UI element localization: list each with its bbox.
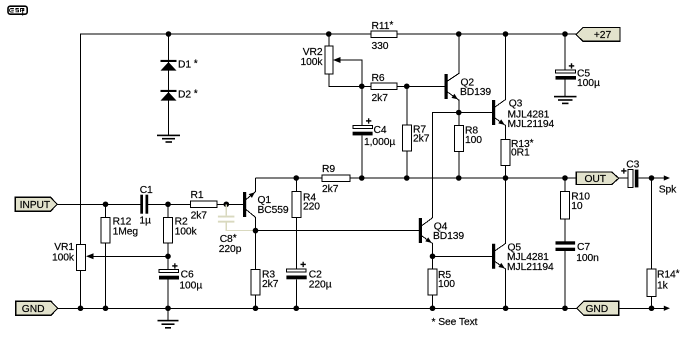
node R4 top bbox=[293, 175, 299, 181]
svg-text:BD139: BD139 bbox=[460, 87, 491, 98]
transistor Q4 bbox=[419, 218, 465, 256]
capacitor C2 bbox=[286, 260, 331, 308]
svg-text:2k7: 2k7 bbox=[413, 134, 430, 145]
svg-text:OUT: OUT bbox=[585, 174, 607, 185]
svg-text:R9: R9 bbox=[322, 164, 335, 175]
node R3 bottom bbox=[253, 305, 259, 311]
capacitor C5 bbox=[556, 34, 600, 97]
svg-text:220µ: 220µ bbox=[309, 280, 332, 291]
svg-text:1µ: 1µ bbox=[139, 215, 151, 226]
node Q2 emitter bbox=[456, 110, 462, 116]
svg-text:R6: R6 bbox=[372, 73, 385, 84]
esp logo bbox=[8, 6, 27, 15]
tag GND right bbox=[577, 301, 619, 315]
tag +27 bbox=[576, 28, 620, 42]
node Q3 collector rail bbox=[503, 31, 509, 37]
svg-text:C7: C7 bbox=[577, 242, 590, 253]
svg-text:1,000µ: 1,000µ bbox=[364, 137, 395, 148]
svg-text:BC559: BC559 bbox=[258, 205, 289, 216]
node C7 bottom bbox=[562, 305, 568, 311]
svg-text:100n: 100n bbox=[576, 253, 599, 264]
node Q2 collector rail bbox=[456, 31, 462, 37]
svg-text:Spk: Spk bbox=[659, 185, 677, 196]
node C2 bottom bbox=[293, 305, 299, 311]
trimpot VR1 bbox=[52, 242, 168, 308]
svg-text:100: 100 bbox=[438, 279, 455, 290]
svg-text:BD139: BD139 bbox=[433, 231, 464, 242]
diode D1 bbox=[161, 59, 198, 71]
svg-text:C1: C1 bbox=[140, 185, 153, 196]
wire Q1 collector to Q4 base bbox=[256, 230, 419, 232]
svg-text:+27: +27 bbox=[594, 30, 612, 41]
transistor Q3 bbox=[492, 34, 555, 139]
node R14 bottom bbox=[649, 305, 655, 311]
svg-text:2k7: 2k7 bbox=[262, 279, 279, 290]
capacitor C1 bbox=[139, 185, 153, 227]
node R12 top bbox=[103, 201, 109, 207]
node C5 rail bbox=[562, 31, 568, 37]
svg-text:MJL21194: MJL21194 bbox=[508, 119, 555, 130]
node VR2/R6/C4 bbox=[359, 83, 365, 89]
svg-text:C4: C4 bbox=[374, 125, 387, 136]
capacitor C8 (greyed) bbox=[218, 204, 253, 255]
resistor R11 bbox=[371, 20, 397, 52]
svg-text:100k: 100k bbox=[175, 227, 198, 238]
ground under D2 bbox=[157, 135, 180, 143]
svg-text:220p: 220p bbox=[219, 244, 242, 255]
node C6 bottom / ground bbox=[165, 305, 171, 311]
wire C1 to R1 bbox=[148, 203, 190, 205]
svg-text:100µ: 100µ bbox=[179, 281, 202, 292]
node junction VR2 top bbox=[326, 31, 332, 37]
svg-text:330: 330 bbox=[372, 41, 389, 52]
svg-text:Q3: Q3 bbox=[509, 99, 523, 110]
resistor R9 bbox=[322, 164, 350, 195]
svg-text:* See Text: * See Text bbox=[432, 317, 478, 328]
resistor R8 bbox=[454, 113, 482, 179]
node Spk / R14 bbox=[649, 175, 655, 181]
svg-text:10: 10 bbox=[571, 201, 583, 212]
wire R14 from Spk node bbox=[651, 178, 653, 269]
resistor R2 bbox=[164, 204, 198, 269]
node Q1 collector / R3 bbox=[253, 228, 259, 234]
resistor R1 bbox=[191, 190, 244, 222]
resistor R4 bbox=[292, 178, 321, 269]
capacitor C4 bbox=[353, 86, 396, 178]
wire R9 to OUT node bbox=[350, 177, 576, 179]
svg-text:100: 100 bbox=[465, 135, 482, 146]
resistor R7 bbox=[402, 86, 429, 178]
node R8 bottom bbox=[456, 175, 462, 181]
node Q4 emitter / R5 / Q5 base bbox=[430, 253, 436, 259]
transistor Q1 bbox=[243, 178, 289, 231]
capacitor C7 bbox=[556, 241, 600, 308]
svg-text:2k7: 2k7 bbox=[372, 93, 389, 104]
svg-text:1k: 1k bbox=[657, 281, 669, 292]
wire +27 rail left (feed down to VR1) bbox=[81, 34, 372, 245]
svg-text:220: 220 bbox=[303, 201, 320, 212]
node R10 top bbox=[562, 175, 568, 181]
node Q1 base / C8 bbox=[224, 201, 230, 207]
resistor R10 bbox=[561, 178, 591, 241]
svg-text:C3: C3 bbox=[626, 159, 639, 170]
svg-text:R11*: R11* bbox=[372, 20, 394, 32]
node Q5 emitter bottom bbox=[503, 305, 509, 311]
ground symbol below rail bbox=[158, 308, 179, 328]
svg-text:D1 *: D1 * bbox=[178, 59, 198, 71]
arrow Spk out bbox=[664, 175, 670, 180]
resistor R14 bbox=[647, 269, 680, 309]
tag GND left bbox=[16, 301, 58, 315]
node R13 bottom / Q5 collector bbox=[503, 175, 509, 181]
tag OUT bbox=[576, 172, 619, 185]
svg-text:R1: R1 bbox=[191, 190, 204, 201]
wire ground rail bbox=[58, 307, 577, 309]
svg-text:2k7: 2k7 bbox=[191, 211, 208, 222]
node C4 bottom bbox=[359, 175, 365, 181]
capacitor C3 bbox=[621, 159, 640, 187]
node VR1 bottom bbox=[78, 305, 84, 311]
trimpot VR2 bbox=[300, 34, 361, 86]
node R2 top bbox=[165, 201, 171, 207]
svg-text:VR1: VR1 bbox=[54, 242, 74, 253]
svg-text:100k: 100k bbox=[52, 253, 75, 264]
wire input line bbox=[57, 203, 140, 205]
capacitor C6 bbox=[159, 261, 202, 308]
resistor R6 bbox=[362, 73, 445, 104]
diode D2 bbox=[161, 89, 198, 101]
transistor Q5 bbox=[492, 178, 554, 308]
svg-text:MJL21194: MJL21194 bbox=[507, 262, 554, 273]
resistor R13 bbox=[501, 138, 534, 178]
wire Q2 emitter node to Q4 collector bbox=[433, 113, 459, 218]
wire Q1 top to R9 bbox=[255, 177, 322, 179]
node junction D1 top rail bbox=[166, 31, 172, 37]
resistor R12 bbox=[101, 204, 138, 308]
resistor R5 bbox=[428, 256, 455, 308]
svg-text:100µ: 100µ bbox=[577, 78, 600, 89]
wire D1/D2 chain bbox=[168, 34, 170, 135]
resistor R3 bbox=[251, 231, 279, 309]
svg-text:D2 *: D2 * bbox=[178, 89, 198, 101]
node VR1 wiper / R2 / C6 bbox=[165, 253, 171, 259]
svg-text:GND: GND bbox=[22, 304, 45, 315]
svg-text:GND: GND bbox=[586, 304, 609, 315]
svg-text:100k: 100k bbox=[300, 57, 323, 68]
wire Q2 emitter to Q3 base bbox=[459, 112, 492, 114]
node R7 bottom bbox=[404, 175, 410, 181]
wire OUT tag to C3 bbox=[619, 177, 628, 179]
svg-text:C6: C6 bbox=[181, 270, 194, 281]
transistor Q2 bbox=[445, 34, 492, 113]
svg-text:1Meg: 1Meg bbox=[113, 227, 139, 238]
ground under C5 bbox=[554, 96, 577, 104]
svg-text:R14*: R14* bbox=[657, 269, 680, 281]
node R7 top bbox=[404, 83, 410, 89]
svg-text:INPUT: INPUT bbox=[20, 200, 51, 211]
svg-text:0R1: 0R1 bbox=[511, 148, 530, 159]
svg-text:2k7: 2k7 bbox=[322, 184, 339, 195]
node R12 bottom bbox=[103, 305, 109, 311]
wire Q4 emitter to Q5 base bbox=[433, 255, 493, 257]
tag INPUT bbox=[15, 197, 57, 211]
wire +27 rail right of R11 bbox=[397, 33, 576, 35]
wire GND right to arrow bbox=[619, 307, 664, 309]
wire C3 to Spk bbox=[638, 177, 664, 179]
node R5 bottom bbox=[430, 305, 436, 311]
arrow GND out bbox=[664, 306, 670, 311]
